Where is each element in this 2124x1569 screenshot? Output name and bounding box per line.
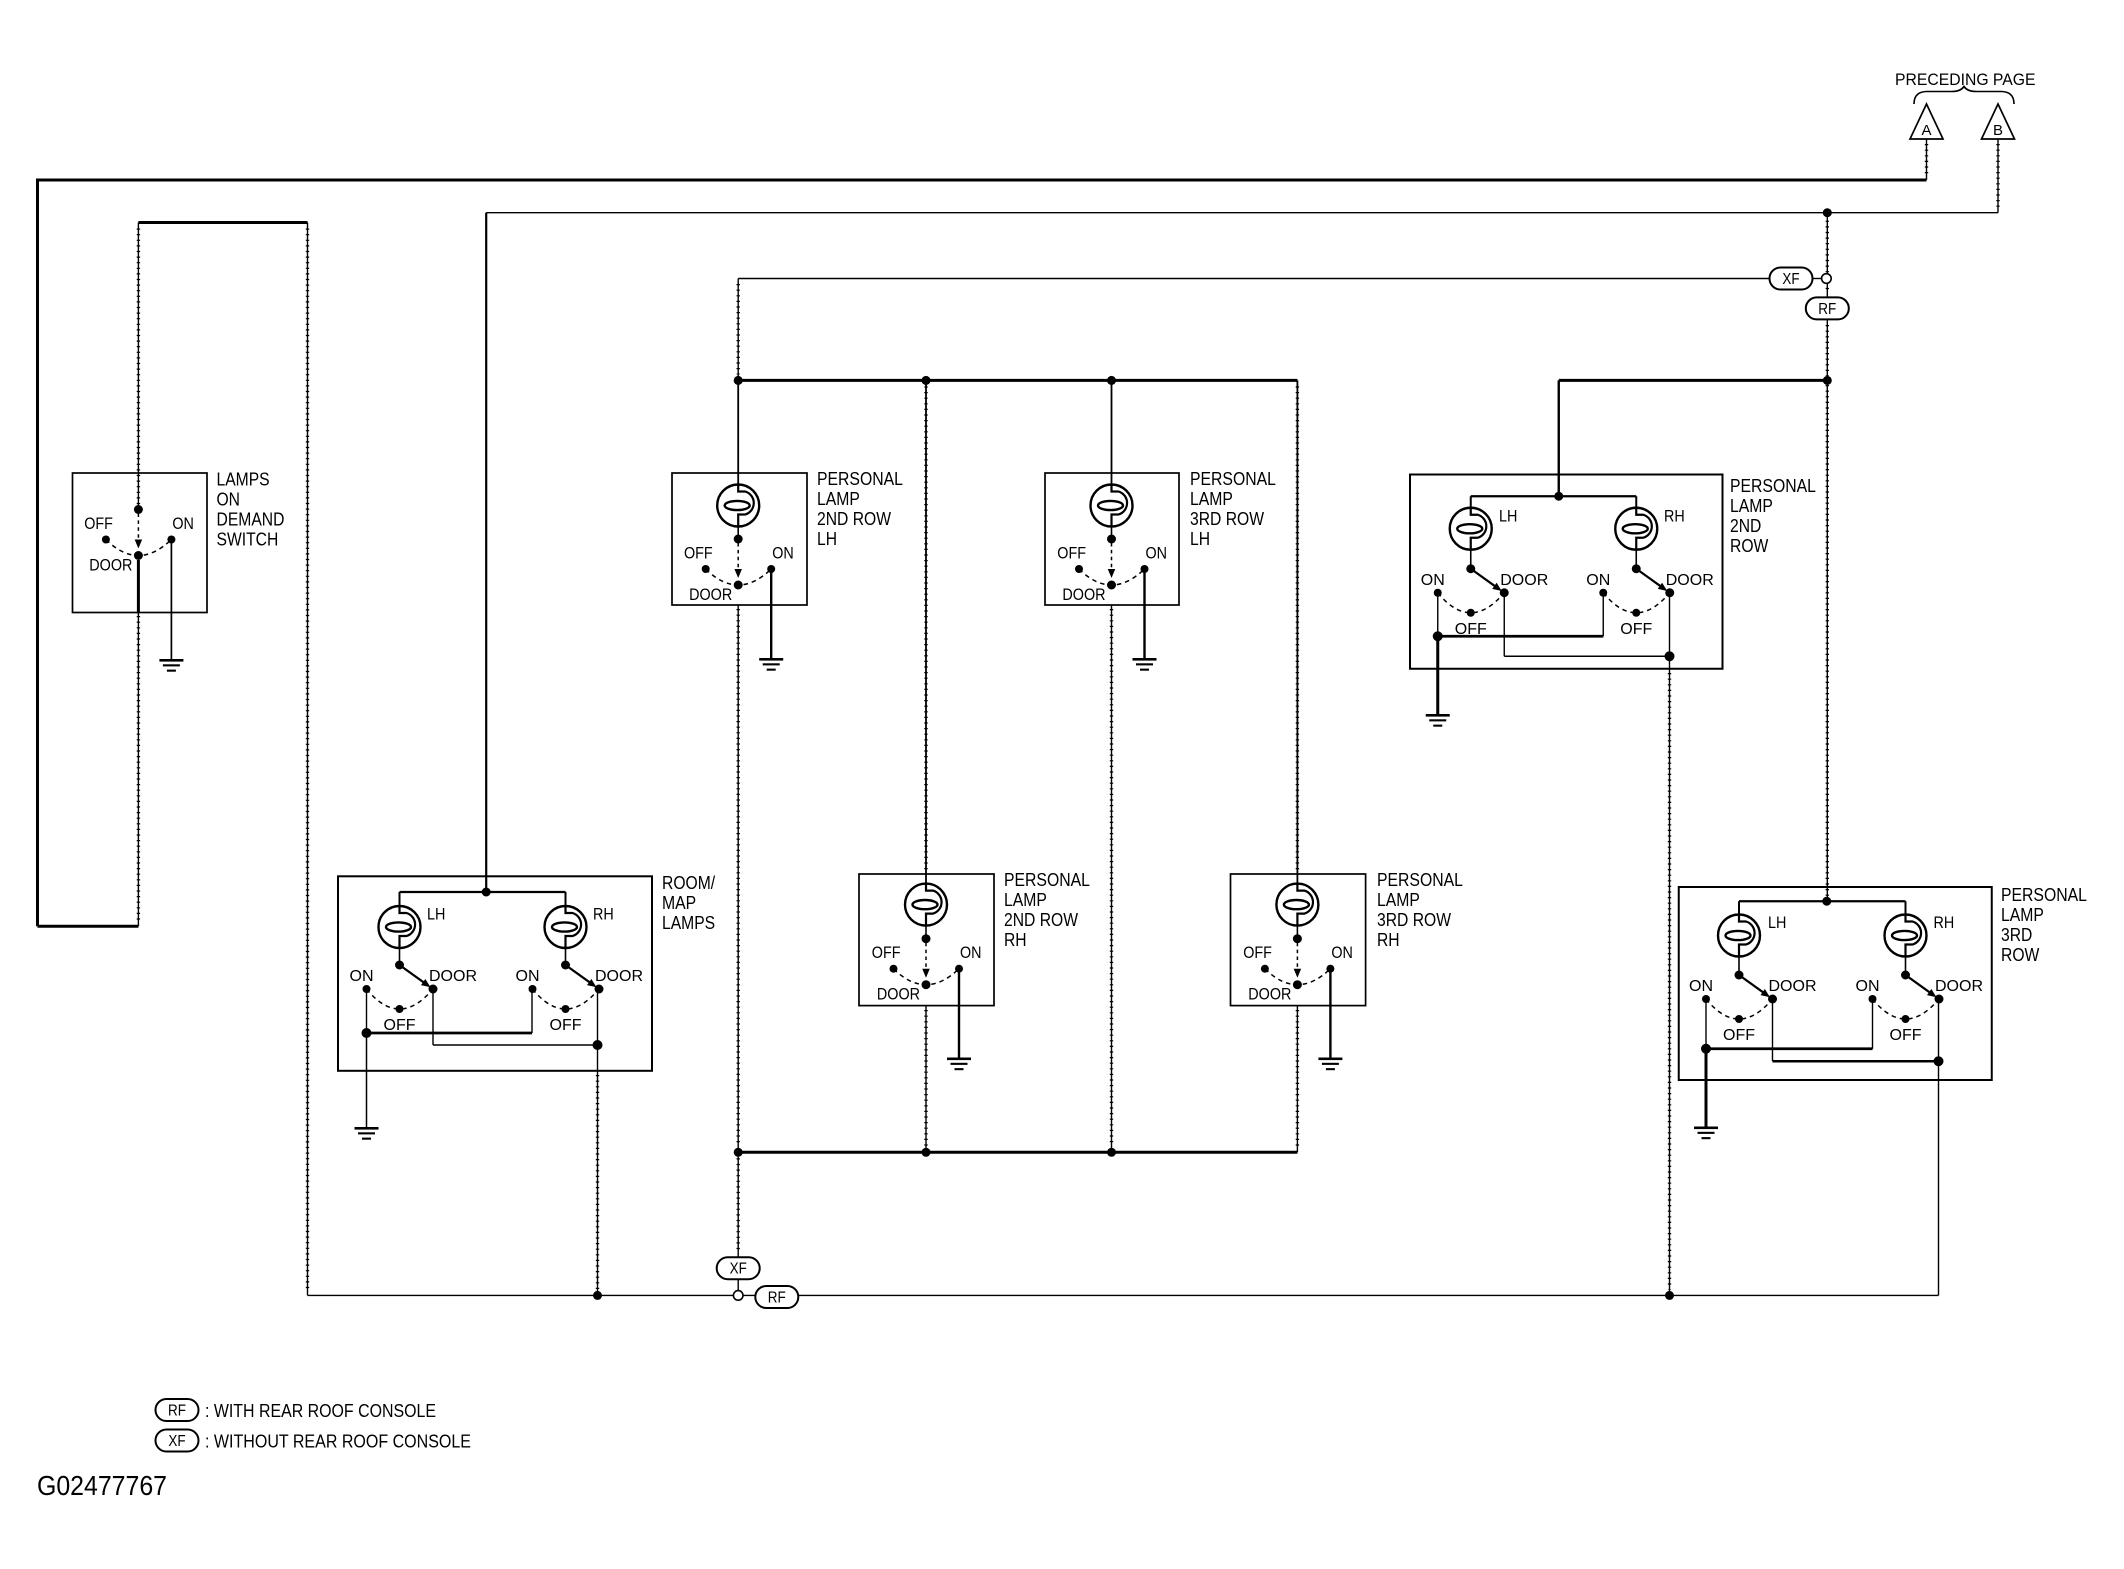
wire: lower-left horizontal link (38, 925, 139, 928)
junction: ON tie / ground drop (1433, 631, 1443, 641)
svg-text:ON: ON (516, 968, 540, 985)
svg-text:DOOR: DOOR (1062, 586, 1105, 604)
svg-text:OFF: OFF (550, 1017, 582, 1034)
connector tag XF (top) (1770, 268, 1813, 290)
wire: demand switch ON to ground (170, 540, 172, 660)
wire: RH DOOR drop (1938, 999, 1940, 1061)
svg-text:DOOR: DOOR (689, 586, 732, 604)
ground personal 2nd row LH (759, 658, 783, 671)
wire: 3rd-row RF internal feed (1739, 900, 1906, 902)
svg-text:PRECEDING PAGE: PRECEDING PAGE (1895, 71, 2036, 89)
svg-text:DOOR: DOOR (877, 986, 920, 1004)
wire: 3rd-row RF DOOR output drop (1938, 1080, 1940, 1295)
connector tag XF (legend) (156, 1430, 199, 1452)
wire: XF feed drop to upper bus (737, 279, 739, 381)
junction: DOOR link / output (1934, 1056, 1944, 1066)
junction: lower bus / 2nd row RH column (922, 1148, 931, 1157)
wire: 3rd row LH door segment (1111, 605, 1113, 1152)
component box: PERSONAL LAMP 2ND ROW LH (672, 473, 807, 605)
open terminal: XF variant (bottom) (733, 1291, 743, 1301)
wire: RH ON drop (1602, 593, 1604, 636)
wire: left outer vertical (36, 179, 39, 927)
svg-text:RF: RF (1818, 301, 1836, 318)
wire: 2nd row LH feed segment (737, 380, 739, 473)
brace over connectors A and B (1914, 87, 2014, 105)
wire: lamp to switch stub (925, 926, 927, 939)
wire: RH lamp to switch (1905, 957, 1907, 976)
wire: stub to RH lamp (1635, 496, 1637, 508)
wire: ON tie to ground (1705, 1049, 1708, 1127)
node B off-page stub (1997, 139, 1999, 213)
node A off-page stub (1926, 139, 1928, 180)
wire: feed stub into lamp (737, 473, 739, 486)
svg-text:ON: ON (1331, 944, 1353, 962)
wire: LH lamp to switch (1470, 550, 1472, 569)
ground personal 2nd row RH (947, 1058, 971, 1071)
junction: B wire / right feed column (1823, 208, 1832, 217)
switch personal 3rd row LH (OFF/ON/DOOR) (1057, 535, 1167, 605)
svg-text:OFF: OFF (1620, 621, 1652, 638)
svg-text:OFF: OFF (1890, 1027, 1922, 1044)
ground 3rd-row RF (1694, 1127, 1718, 1140)
svg-text:OFF: OFF (1243, 944, 1272, 962)
wire: LH lamp to switch (1738, 957, 1740, 976)
svg-text:LAMPS ON DEMAND SWITCH: LAMPS ON DEMAND SWITCH (217, 470, 290, 550)
lamp 2nd-row RF LH (1450, 508, 1492, 550)
wire: RH lamp to switch (1635, 550, 1637, 569)
wire: bottom door-circuit horizontal (308, 1294, 1939, 1296)
wire: second vertical (dotted style) (307, 223, 309, 1296)
wire: right feed column (B to 3rd-row RF lamp) (1826, 213, 1828, 902)
ground demand switch (159, 659, 183, 672)
lamp room/map LH (379, 906, 421, 948)
switch room/map LH (ON/DOOR/OFF) (350, 961, 478, 1035)
svg-text:DOOR: DOOR (1248, 986, 1291, 1004)
svg-text:ON: ON (1856, 978, 1880, 995)
svg-text:RH: RH (1664, 508, 1685, 526)
wire: DOOR link line (1773, 1060, 1939, 1062)
ground personal 3rd row LH (1133, 658, 1157, 671)
junction: ON tie / ground drop (362, 1028, 372, 1038)
wire: ON tie to ground (366, 1033, 368, 1127)
svg-text:DOOR: DOOR (1935, 978, 1983, 995)
wire: demand switch top horizontal (138, 221, 307, 224)
connector tag RF (top) (1806, 297, 1849, 319)
svg-text:ON: ON (350, 968, 374, 985)
svg-text:RH: RH (593, 906, 614, 924)
wire: feed stub into lamp (1296, 874, 1298, 885)
wire: RH DOOR drop (597, 989, 599, 1045)
svg-text:PERSONAL LAMP 2ND ROW: PERSONAL LAMP 2ND ROW (1730, 476, 1820, 556)
switch room/map RH (ON/DOOR/OFF) (516, 961, 644, 1035)
wire: RH DOOR drop (1669, 593, 1671, 656)
junction: upper bus / 2nd row RH column (922, 376, 931, 385)
wire: room/map lamps feed drop (485, 213, 487, 892)
switch personal 2nd row RH (OFF/ON/DOOR) (872, 934, 982, 1004)
svg-text:DOOR: DOOR (1769, 978, 1817, 995)
component box: PERSONAL LAMP 3RD ROW LH (1045, 473, 1179, 605)
wire: demand switch column to lower link (137, 613, 139, 927)
wire: demand switch DOOR output (thick) (137, 560, 140, 613)
wire: LH ON drop (366, 989, 368, 1033)
switch personal 2nd row LH (OFF/ON/DOOR) (684, 535, 794, 605)
component box: ROOM/MAP LAMPS (338, 876, 652, 1071)
switch lamps-on-demand (OFF/ON/DOOR) (84, 505, 194, 575)
wire: 2nd row LH door segment (737, 605, 739, 1152)
wire: LH DOOR drop (1503, 593, 1505, 656)
component box: PERSONAL LAMP 3RD ROW RH (1231, 874, 1366, 1006)
svg-text:RH: RH (1934, 914, 1955, 932)
wire: feed from connector A (top horizontal) (38, 179, 1927, 182)
svg-text:ON: ON (1146, 545, 1168, 563)
component box: PERSONAL LAMP 2ND ROW RH (859, 874, 994, 1006)
lamp 3rd-row RF RH (1885, 915, 1927, 957)
svg-text:OFF: OFF (1723, 1027, 1755, 1044)
svg-text:OFF: OFF (872, 944, 901, 962)
svg-text:DOOR: DOOR (429, 968, 477, 985)
ground 2nd-row RF (1426, 714, 1450, 727)
svg-text:ON: ON (1421, 572, 1445, 589)
svg-text:LH: LH (1768, 914, 1786, 932)
connector tag RF (bottom) (755, 1286, 798, 1308)
svg-text:XF: XF (168, 1433, 185, 1450)
wire: 2nd-row RF DOOR output drop (1669, 669, 1671, 1296)
svg-text:ON: ON (772, 545, 794, 563)
svg-text:ON: ON (960, 944, 982, 962)
switch 3rd-row RF LH (ON/DOOR/OFF) (1689, 971, 1817, 1045)
wire: DOOR link line (433, 1044, 598, 1046)
wire: stub to LH lamp (1470, 496, 1472, 508)
svg-text:ON: ON (172, 515, 194, 533)
wire: lower personal-lamp bus (738, 1151, 1297, 1154)
svg-text:PERSONAL LAMP 2ND ROW RH: PERSONAL LAMP 2ND ROW RH (1004, 870, 1094, 950)
component box: LAMPS ON DEMAND SWITCH (73, 473, 208, 613)
lamp personal 3rd row RH (1276, 884, 1318, 926)
wire: ON tie line (1706, 1047, 1873, 1050)
wire: ON tie line (1438, 635, 1604, 638)
lamp personal 3rd row LH (1091, 485, 1133, 527)
svg-text:DOOR: DOOR (89, 557, 132, 575)
svg-text:PERSONAL LAMP 2ND ROW LH: PERSONAL LAMP 2ND ROW LH (817, 469, 907, 549)
wire: LH DOOR drop (432, 989, 434, 1045)
wire: stub to LH lamp (399, 892, 401, 907)
svg-text:PERSONAL LAMP 3RD ROW LH: PERSONAL LAMP 3RD ROW LH (1190, 469, 1280, 549)
svg-text:LH: LH (1499, 508, 1517, 526)
junction: ON tie / ground drop (1701, 1044, 1711, 1054)
svg-text:OFF: OFF (1057, 545, 1086, 563)
lamp 2nd-row RF RH (1615, 508, 1657, 550)
switch 2nd-row RF LH (ON/DOOR/OFF) (1421, 564, 1549, 638)
svg-text:ROOM/ MAP LAMPS: ROOM/ MAP LAMPS (662, 873, 720, 933)
junction: door circuit / room-map door output (593, 1291, 602, 1300)
svg-text:B: B (1993, 122, 2003, 139)
wire: 2nd-row RF internal feed (1471, 495, 1637, 497)
junction: 2nd-row RF feed (1554, 492, 1563, 501)
wire: DOOR output inside box (1669, 656, 1671, 669)
wire: lamp to switch stub (1296, 926, 1298, 939)
junction: upper bus / 2nd row LH column (734, 376, 743, 385)
wire: LH ON drop (1437, 593, 1439, 636)
junction: door circuit / 2nd-row RF door output (1665, 1291, 1674, 1300)
svg-text:: WITHOUT REAR ROOF CONSOLE: : WITHOUT REAR ROOF CONSOLE (205, 1432, 471, 1452)
wire: XF tag to open circle stub (bottom) (737, 1279, 739, 1290)
wire: 2nd-row RF lamps feed drop (1558, 380, 1560, 496)
wire: 2nd row RH ON to ground (958, 969, 960, 1058)
svg-text:DOOR: DOOR (1500, 572, 1548, 589)
wire: 3rd row RH feed segment (1296, 380, 1298, 874)
component box: PERSONAL LAMP 3RD ROW (roof console) (1679, 887, 1992, 1080)
wire: RH ON drop (1872, 999, 1874, 1049)
svg-text:PERSONAL LAMP 3RD ROW RH: PERSONAL LAMP 3RD ROW RH (1377, 870, 1467, 950)
connector tag RF (legend) (156, 1399, 199, 1421)
wire: lower bus to XF tag drop (737, 1152, 739, 1257)
svg-text:OFF: OFF (684, 545, 713, 563)
wire: 3rd row RH ON to ground (1329, 969, 1331, 1058)
wire: feed from connector B (horizontal) (486, 212, 1998, 214)
connector tag XF (bottom) (717, 1257, 760, 1279)
switch 3rd-row RF RH (ON/DOOR/OFF) (1856, 971, 1984, 1045)
svg-text:RF: RF (768, 1290, 786, 1307)
ground room/map lamps (355, 1127, 379, 1140)
svg-text:PERSONAL LAMP 3RD ROW: PERSONAL LAMP 3RD ROW (2001, 885, 2091, 965)
wire: XF tag to open circle stub (1812, 278, 1821, 280)
open terminal: XF variant (top) (1822, 274, 1832, 284)
wire: DOOR output inside box (1938, 1061, 1940, 1080)
svg-text:RF: RF (168, 1403, 186, 1420)
junction: lower bus / 2nd row LH column (734, 1148, 743, 1157)
wire: XF-variant feed (horizontal) (738, 278, 1769, 280)
junction: room/map feed (482, 888, 491, 897)
svg-text:OFF: OFF (384, 1017, 416, 1034)
wire: LH lamp to switch (399, 948, 401, 965)
wire: 2nd row RH feed segment (925, 380, 927, 874)
svg-text:DOOR: DOOR (595, 968, 643, 985)
wire: 3rd row RH door segment (1296, 1006, 1298, 1153)
wire: DOOR output inside box (597, 1045, 599, 1071)
wire: lamp to switch stub (1111, 527, 1113, 540)
lamp room/map RH (545, 906, 587, 948)
svg-text:DOOR: DOOR (1666, 572, 1714, 589)
wire: RH ON drop (531, 989, 533, 1033)
wire: feed stub into lamp (925, 874, 927, 885)
wire: LH ON drop (1705, 999, 1707, 1049)
svg-text:A: A (1921, 122, 1931, 139)
svg-text:ON: ON (1586, 572, 1610, 589)
lamp personal 2nd row RH (905, 884, 947, 926)
junction: lower bus / 3rd row LH column (1107, 1148, 1116, 1157)
ground personal 3rd row RH (1318, 1058, 1342, 1071)
svg-text:XF: XF (730, 1261, 747, 1278)
svg-text:OFF: OFF (84, 515, 113, 533)
component box: PERSONAL LAMP 2ND ROW (roof console) (1410, 475, 1723, 669)
lamp personal 2nd row LH (717, 485, 759, 527)
wire: feed stub into lamp (1111, 473, 1113, 486)
junction: DOOR link / output (1665, 651, 1675, 661)
svg-text:: WITH REAR ROOF CONSOLE: : WITH REAR ROOF CONSOLE (205, 1401, 436, 1421)
wire: 3rd row LH feed segment (1111, 380, 1113, 473)
wire: stub to RH lamp (1905, 901, 1907, 915)
wire: RH lamp to switch (565, 948, 567, 965)
svg-text:G02477767: G02477767 (37, 1470, 167, 1501)
svg-text:ON: ON (1689, 978, 1713, 995)
wire: demand switch feed column (137, 223, 139, 510)
wire: DOOR link line (1504, 655, 1669, 657)
junction: right bus / RF feed column (1823, 376, 1832, 385)
svg-text:XF: XF (1782, 271, 1799, 288)
off-page connector A (1910, 104, 1943, 139)
off-page connector B (1982, 104, 2015, 139)
wire: 3rd row LH ON to ground (1143, 570, 1145, 659)
junction: upper bus / 3rd row LH column (1107, 376, 1116, 385)
switch 2nd-row RF RH (ON/DOOR/OFF) (1586, 564, 1714, 638)
wire: ON tie line (367, 1032, 533, 1035)
wire: lamp to switch stub (737, 527, 739, 540)
wire: 2nd row RH door segment (925, 1006, 927, 1153)
wire: stub to RH lamp (565, 892, 567, 907)
wire: room/map internal feed (400, 891, 566, 893)
wire: ON tie to ground (1436, 636, 1439, 714)
junction: DOOR link / output (593, 1040, 603, 1050)
wire: right bus to RF feed column (1559, 379, 1828, 382)
wire: stub to LH lamp (1738, 901, 1740, 915)
wire: room/map DOOR output drop (597, 1071, 599, 1296)
wire: upper personal-lamp bus (738, 379, 1297, 382)
lamp 3rd-row RF LH (1718, 915, 1760, 957)
switch personal 3rd row RH (OFF/ON/DOOR) (1243, 934, 1353, 1004)
junction: 3rd-row RF feed (1822, 897, 1831, 906)
wire: 2nd row LH ON to ground (770, 570, 772, 659)
wire: LH DOOR drop (1772, 999, 1774, 1061)
svg-text:LH: LH (427, 906, 445, 924)
